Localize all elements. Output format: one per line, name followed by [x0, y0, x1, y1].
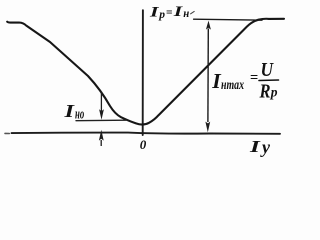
- Ino level line: [76, 119, 126, 122]
- label Ino: [63, 101, 84, 122]
- svg-text:р: р: [158, 9, 165, 21]
- y-axis: [142, 10, 144, 135]
- label Ip = In: [148, 4, 189, 21]
- svg-text:н: н: [183, 6, 189, 20]
- svg-text:I: I: [248, 137, 260, 156]
- svg-text:I: I: [63, 101, 75, 121]
- big double-headed arrow (Inmax dimension): [205, 21, 211, 133]
- svg-text:R: R: [259, 81, 271, 103]
- curve (V-shaped characteristic): [7, 19, 284, 125]
- svg-text:U: U: [261, 59, 275, 81]
- label Inmax = U/Rp: [211, 59, 278, 103]
- label Iy: [248, 137, 271, 157]
- svg-text:=: =: [250, 70, 258, 86]
- svg-text:=: =: [166, 7, 173, 19]
- svg-text:но: но: [75, 106, 84, 122]
- x-axis: [5, 133, 280, 134]
- fraction bar of U/Rp: [259, 79, 279, 82]
- pen tick at level line start: [191, 11, 195, 13]
- svg-text:р: р: [270, 85, 278, 100]
- small lower dimension arrow (points up to x-axis): [99, 130, 104, 146]
- saturation level line (Ip=In level): [194, 19, 262, 20]
- small upper dimension arrow (points down to Ino line): [99, 92, 104, 120]
- svg-text:нmax: нmax: [221, 78, 244, 93]
- svg-text:у: у: [260, 137, 271, 157]
- svg-text:0: 0: [140, 137, 147, 152]
